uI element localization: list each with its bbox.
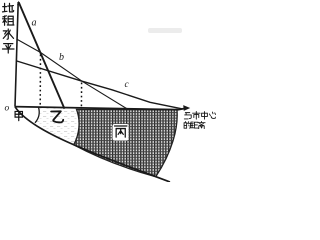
svg-text:o: o [5,104,10,114]
svg-text:c: c [125,80,130,90]
svg-text:b: b [59,52,64,63]
svg-text:a: a [32,18,37,29]
